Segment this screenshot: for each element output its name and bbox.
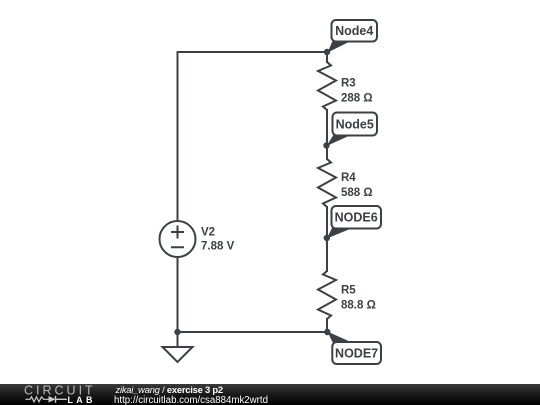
ground bbox=[163, 347, 193, 362]
svg-text:Node4: Node4 bbox=[335, 24, 373, 38]
wire right stub node4 to R3 bbox=[326, 52, 328, 62]
svg-text:zikai_wang / exercise 3 p2: zikai_wang / exercise 3 p2 bbox=[115, 384, 223, 395]
wire left vertical lower bbox=[177, 257, 179, 332]
junction node6 bbox=[324, 235, 330, 241]
svg-text:588 Ω: 588 Ω bbox=[341, 187, 373, 199]
junction node4 bbox=[324, 49, 330, 55]
logo waveform resistor-diode bbox=[26, 396, 67, 403]
svg-text:7.88 V: 7.88 V bbox=[201, 241, 235, 253]
wire right stub R3 to node5 bbox=[326, 110, 328, 146]
svg-text:Node5: Node5 bbox=[336, 118, 374, 132]
node Node5 bbox=[327, 113, 378, 147]
resistor R4 bbox=[318, 159, 336, 207]
svg-text:NODE6: NODE6 bbox=[335, 211, 378, 225]
junction node7 bbox=[324, 329, 330, 335]
svg-text:NODE7: NODE7 bbox=[335, 347, 378, 361]
node Node4 bbox=[328, 20, 378, 53]
resistor R5 bbox=[318, 271, 336, 319]
svg-text:R5: R5 bbox=[341, 285, 356, 297]
wire bottom horizontal bbox=[178, 331, 328, 333]
wire right stub node5 to R4 bbox=[326, 146, 328, 160]
footer bar bbox=[0, 384, 540, 405]
voltage source V2 bbox=[160, 221, 196, 257]
wire top horizontal bbox=[178, 51, 328, 53]
ground stub wire bbox=[177, 332, 179, 347]
resistor R3 bbox=[318, 62, 336, 110]
node NODE6 bbox=[327, 206, 381, 239]
wire right stub R4 to node6 bbox=[326, 207, 328, 238]
junction node5 bbox=[323, 142, 329, 148]
svg-text:http://circuitlab.com/csa884mk: http://circuitlab.com/csa884mk2wrtd bbox=[114, 395, 268, 405]
wire right stub node6 to R5 bbox=[326, 238, 328, 271]
wire right stub R5 to node7 bbox=[326, 319, 328, 332]
svg-text:R4: R4 bbox=[341, 172, 356, 184]
svg-text:288 Ω: 288 Ω bbox=[341, 93, 373, 105]
svg-text:LAB: LAB bbox=[68, 395, 96, 405]
junction dot bottom left bbox=[174, 329, 180, 335]
svg-text:R3: R3 bbox=[341, 78, 356, 90]
node NODE7 bbox=[327, 332, 381, 365]
svg-text:88.8 Ω: 88.8 Ω bbox=[341, 300, 376, 312]
wire left vertical upper bbox=[177, 52, 179, 221]
svg-text:V2: V2 bbox=[201, 227, 215, 239]
